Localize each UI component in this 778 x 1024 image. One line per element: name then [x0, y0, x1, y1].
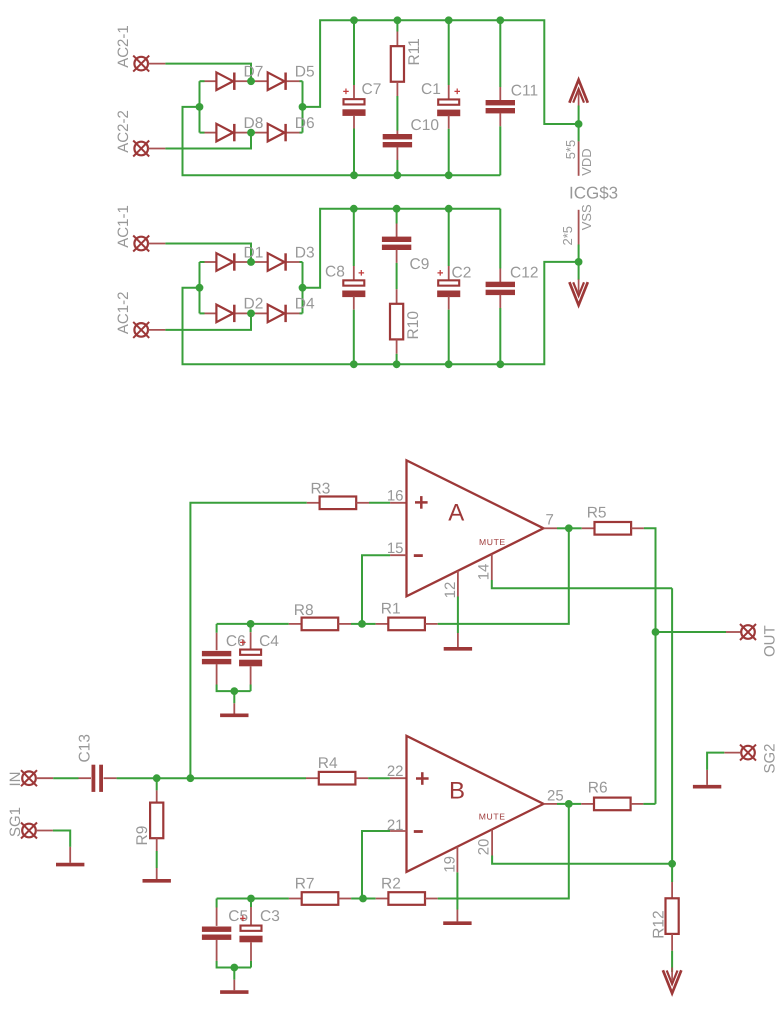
junction C9 top rail	[393, 205, 401, 213]
pin D7 cathode	[235, 80, 247, 82]
pin B out 25	[544, 803, 558, 805]
pin GND C6C4	[233, 703, 235, 713]
wire C12 top	[499, 209, 501, 269]
svg-text:20: 20	[476, 839, 493, 856]
wire VSS arrow stem	[578, 262, 580, 280]
resistor R6	[594, 798, 631, 811]
pin C12 top	[499, 269, 501, 283]
resistor R12	[666, 898, 679, 934]
wire A out to R5	[569, 527, 582, 529]
wire A feedback left	[217, 623, 251, 625]
pin R7 left	[289, 898, 302, 900]
wire R12 arrow stem	[671, 966, 673, 972]
wire R5 to OUT column	[644, 528, 656, 632]
pin C9 top	[396, 224, 398, 238]
capacitor C9	[382, 237, 411, 250]
svg-text:22: 22	[387, 763, 404, 780]
pin C10 top	[396, 131, 398, 135]
ground below pin 12	[444, 647, 472, 651]
pin D3 cathode	[287, 261, 300, 263]
plus C7	[343, 86, 349, 98]
label C9	[410, 256, 430, 273]
resistor R7	[302, 892, 339, 905]
wire bridge top row right	[300, 80, 303, 82]
junction VDD	[575, 120, 583, 128]
wire OUT junction to pad	[656, 631, 727, 633]
label SG1	[7, 807, 24, 837]
capacitor C8	[342, 280, 365, 297]
pin C10 bottom	[396, 147, 398, 160]
ground below C6 C4	[220, 713, 248, 717]
pin A 12	[457, 571, 459, 597]
pin AC2-1	[148, 63, 165, 65]
svg-text:OUT: OUT	[762, 625, 778, 657]
pin R11 top	[396, 32, 398, 47]
resistor R3	[320, 497, 357, 510]
wire bridge2 top row mid	[248, 261, 256, 263]
wire A feedback mid	[251, 623, 289, 625]
pin label 21	[387, 817, 404, 834]
pin C5 bottom	[216, 939, 218, 961]
label R1	[381, 601, 401, 618]
svg-text:R7: R7	[295, 876, 315, 893]
resistor R1	[388, 618, 425, 631]
pin C2 bottom	[448, 296, 450, 309]
capacitor C11	[486, 100, 515, 113]
resistor R4	[319, 772, 356, 785]
pin D6 cathode	[287, 132, 300, 134]
wire R2 segment	[363, 898, 376, 900]
svg-text:R4: R4	[318, 755, 338, 772]
wire C11 top	[499, 20, 501, 87]
label C11	[511, 83, 538, 100]
svg-text:C9: C9	[410, 256, 430, 273]
pin C2 top	[448, 266, 450, 280]
svg-text:C13: C13	[77, 734, 94, 762]
wire C6 top	[216, 624, 218, 633]
junction C4 top	[247, 620, 255, 628]
capacitor C5	[202, 927, 231, 940]
label VDD	[579, 148, 594, 175]
pin A out 7	[544, 527, 558, 529]
junction C3 top	[247, 895, 255, 903]
pin AC1-2	[148, 329, 165, 331]
wire bridge2 bottom row right	[300, 312, 303, 314]
junction bridge2 left	[196, 284, 204, 292]
pad SG2	[740, 745, 756, 761]
svg-text:SG1: SG1	[7, 807, 24, 837]
wire C4 bottom	[250, 685, 252, 692]
label R2	[381, 876, 401, 893]
wire bridge bottom row right	[300, 132, 303, 134]
wire bridge2 bottom row mid	[248, 312, 256, 314]
capacitor C6	[202, 651, 231, 664]
junction A output	[565, 524, 573, 532]
supply arrow VSS	[569, 279, 587, 305]
wire bridge2 right side	[302, 262, 304, 313]
capacitor C12	[486, 282, 515, 295]
pin B+ 22	[390, 777, 407, 779]
junction bridge bottom	[247, 129, 255, 137]
junction VSS	[575, 258, 583, 266]
wire node to R4	[190, 777, 306, 779]
wire group A to ground	[233, 691, 235, 703]
junction R12 top	[668, 860, 676, 868]
pin C6 top	[216, 633, 218, 650]
pin label 12	[442, 582, 459, 599]
wire R1 segment	[362, 623, 376, 625]
junction bridge2 right	[299, 284, 307, 292]
svg-text:SG2: SG2	[762, 743, 778, 773]
junction R11 top rail	[394, 16, 402, 24]
pin IN	[36, 777, 53, 779]
diode D6	[268, 115, 315, 141]
wire AC2-2 to bridge	[165, 133, 251, 149]
pin R4 left	[306, 777, 319, 779]
svg-text:+: +	[454, 86, 460, 98]
wire R11 top	[396, 20, 398, 31]
wire pin20 to right	[492, 856, 672, 864]
wire SG2 to ground	[707, 753, 724, 770]
label OUT	[762, 625, 778, 657]
pin R9 top	[156, 790, 158, 802]
pin D4 cathode	[287, 312, 300, 314]
wire pin19 down	[456, 872, 458, 909]
pin C8 top	[353, 266, 355, 280]
junction OUT	[652, 628, 660, 636]
svg-text:+: +	[343, 86, 349, 98]
pin label 22	[387, 763, 404, 780]
wire VDD arrow stem	[578, 106, 580, 142]
svg-text:R5: R5	[587, 504, 607, 521]
svg-text:MUTE: MUTE	[479, 812, 506, 822]
svg-text:R1: R1	[381, 601, 401, 618]
wire bridge2 bottom row	[200, 312, 205, 314]
junction R3 node	[187, 774, 195, 782]
wire R10 bottom	[396, 354, 398, 365]
pad OUT	[740, 624, 756, 640]
label R8	[294, 602, 314, 619]
ground below C5 C3	[220, 990, 248, 994]
pin D1 anode	[205, 261, 217, 263]
wire pin14 to right	[492, 580, 672, 588]
svg-text:+: +	[358, 267, 364, 279]
wire C11 bottom	[499, 126, 501, 175]
junction C1 top rail	[445, 16, 453, 24]
wire bridge right to top rail	[303, 20, 579, 124]
pin C6 bottom	[216, 664, 218, 685]
label R11	[406, 38, 423, 65]
wire C7 top	[353, 20, 355, 85]
pin label 25	[547, 787, 564, 804]
pin R12 bottom	[671, 934, 673, 951]
pin C1 bottom	[448, 115, 450, 128]
wire B feedback to output	[438, 804, 569, 899]
pin C11 top	[499, 87, 501, 101]
junction C11 top rail	[496, 16, 504, 24]
wire B- up	[362, 831, 390, 899]
pin A 14	[491, 554, 493, 580]
pin R4 right	[355, 777, 368, 779]
pin C4 bottom	[250, 666, 252, 684]
junction C1 bottom rail	[445, 171, 453, 179]
junction C6 C4 ground	[230, 687, 238, 695]
wire B out to R6	[569, 803, 581, 805]
pin SG1	[36, 830, 53, 832]
pad AC1-1	[133, 236, 149, 252]
resistor R5	[595, 522, 632, 535]
pad AC1-2	[133, 322, 149, 338]
pin D7 anode	[205, 80, 217, 82]
svg-text:C8: C8	[325, 264, 345, 281]
capacitor C3	[239, 926, 262, 943]
junction bridge right	[299, 103, 307, 111]
pin R12 top	[671, 882, 673, 899]
wire bridge top row	[200, 80, 205, 82]
label C7	[362, 81, 382, 98]
pin R11 bottom	[396, 82, 398, 96]
wire C1 top	[448, 20, 450, 85]
op-amp A	[407, 460, 544, 596]
pin C8 bottom	[353, 296, 355, 309]
pin label 20	[476, 839, 493, 856]
svg-text:R11: R11	[406, 38, 423, 65]
svg-text:IN: IN	[7, 772, 24, 787]
junction C2 top rail	[445, 205, 453, 213]
resistor R8	[302, 618, 339, 631]
label R6	[588, 780, 608, 797]
label 5*5	[563, 140, 578, 160]
junction C10 bottom rail	[394, 171, 402, 179]
svg-text:D6: D6	[295, 115, 315, 132]
svg-text:R3: R3	[311, 481, 331, 498]
label VSS	[579, 204, 594, 230]
svg-text:19: 19	[442, 856, 459, 873]
pin AC2-2	[148, 148, 165, 150]
wire C1 bottom	[448, 129, 450, 176]
diode D5	[268, 64, 315, 91]
wire pin14 column down	[671, 588, 673, 864]
pin D5 cathode	[287, 80, 300, 82]
wire C3 top	[250, 899, 252, 908]
plus C2	[437, 267, 443, 279]
resistor R9	[150, 803, 163, 839]
wire C7 bottom	[353, 129, 355, 176]
pin R3 right	[356, 502, 369, 504]
wire VSS pin to junction	[578, 245, 580, 262]
pin GND C5C3	[233, 980, 235, 991]
label AC1-2	[115, 292, 132, 335]
svg-text:VDD: VDD	[579, 148, 594, 175]
pin R8 left	[289, 623, 302, 625]
junction R10 bottom rail	[393, 360, 401, 368]
pin R3 left	[307, 502, 320, 504]
label R10	[405, 311, 422, 340]
pin C12 bottom	[499, 295, 501, 308]
label C13	[77, 734, 94, 762]
svg-text:25: 25	[547, 787, 564, 804]
wire C5 bottom	[217, 961, 251, 968]
svg-text:C3: C3	[260, 908, 280, 925]
svg-text:R8: R8	[294, 602, 314, 619]
label C6	[226, 633, 246, 650]
wire R4 to B+	[368, 777, 390, 779]
junction R7 R2	[359, 895, 367, 903]
pin D3 anode	[255, 261, 268, 263]
pin D1 cathode	[235, 261, 247, 263]
svg-text:ICG$3: ICG$3	[569, 184, 618, 203]
supply arrow VDD	[569, 80, 587, 106]
pin A+ 16	[390, 502, 406, 504]
wire C5 top	[216, 899, 218, 908]
svg-text:B: B	[449, 778, 465, 805]
resistor R10	[390, 304, 403, 340]
wire C6 bottom	[217, 685, 251, 692]
svg-text:D4: D4	[295, 296, 315, 313]
svg-text:16: 16	[387, 487, 404, 504]
wire C10 bottom	[396, 160, 398, 175]
pin R5 left	[582, 527, 595, 529]
label C5	[228, 908, 248, 925]
pin R6 left	[581, 803, 594, 805]
svg-text:D5: D5	[295, 64, 315, 81]
wire R8 to junction	[351, 623, 362, 625]
svg-text:R6: R6	[588, 780, 608, 797]
svg-text:C4: C4	[259, 633, 279, 650]
pin D6 anode	[255, 132, 268, 134]
pin label 7	[546, 512, 554, 529]
pin D2 anode	[205, 312, 217, 314]
label R7	[295, 876, 315, 893]
wire SG1 to ground	[53, 831, 70, 847]
label C2	[452, 264, 472, 281]
wire C4 top	[250, 624, 252, 632]
pin label 16	[387, 487, 404, 504]
svg-text:C1: C1	[421, 81, 441, 98]
pad AC2-2	[133, 141, 149, 157]
wire node segment	[157, 777, 191, 779]
label C3	[260, 908, 280, 925]
pin C11 bottom	[499, 113, 501, 126]
plus C4	[240, 637, 246, 649]
diode D2	[216, 296, 263, 323]
pin VSS ICG$3	[578, 210, 580, 245]
pin GND A12	[457, 633, 459, 647]
svg-text:AC2-1: AC2-1	[115, 25, 132, 68]
wire A feedback to output	[438, 528, 569, 624]
svg-text:R12: R12	[651, 910, 668, 938]
junction C5 C3 ground	[230, 964, 238, 972]
pin B 19	[456, 847, 458, 873]
wire AC1-2 to bridge	[165, 313, 251, 330]
svg-text:R9: R9	[134, 826, 151, 846]
pin VDD ICG$3	[578, 141, 580, 175]
ground below SG2	[693, 785, 721, 789]
junction C7 top rail	[350, 16, 358, 24]
pin A- 15	[390, 554, 406, 556]
wire bridge top row mid	[248, 80, 256, 82]
diode D3	[268, 244, 315, 271]
wire R11 to C10	[396, 96, 398, 131]
wire R9 to ground	[156, 851, 158, 868]
wire C2 bottom	[448, 310, 450, 365]
label C12	[510, 264, 538, 281]
resistor R11	[391, 46, 404, 82]
wire B feedback left	[217, 898, 251, 900]
label SG2	[762, 743, 778, 773]
label ICG$3	[569, 184, 618, 203]
pin R2 right	[425, 898, 438, 900]
diode D1	[216, 244, 263, 271]
capacitor C4	[239, 650, 262, 667]
wire IN to C13	[53, 777, 78, 779]
pin C4 top	[250, 632, 252, 649]
wire node to R3 line	[190, 503, 306, 778]
svg-text:A: A	[448, 500, 464, 527]
pin C5 top	[216, 908, 218, 926]
svg-text:MUTE: MUTE	[479, 537, 506, 547]
pin D8 cathode	[235, 132, 247, 134]
wire R7 to junction	[351, 898, 363, 900]
junction C2 bottom rail	[445, 360, 453, 368]
pad SG1	[21, 823, 37, 839]
wire C13 to node	[117, 777, 157, 779]
wire A out to junction	[557, 527, 569, 529]
diode D4	[268, 296, 315, 323]
label C10	[411, 117, 440, 134]
svg-text:AC2-2: AC2-2	[115, 110, 132, 153]
pin R8 right	[338, 623, 351, 625]
label C8	[325, 264, 345, 281]
wire AC2-1 to bridge	[165, 64, 251, 82]
pin GND B19	[456, 910, 458, 922]
svg-text:D3: D3	[295, 244, 315, 261]
pin R9 bottom	[156, 838, 158, 851]
svg-text:C7: C7	[362, 81, 382, 98]
plus C8	[358, 267, 364, 279]
pin R10 top	[396, 289, 398, 304]
svg-text:14: 14	[476, 564, 493, 581]
pin label 15	[387, 540, 404, 557]
pin R2 left	[376, 898, 389, 900]
pin R5 right	[631, 527, 644, 529]
pin C9 bottom	[396, 250, 398, 263]
wire C3 bottom	[250, 961, 252, 968]
label C1	[421, 81, 441, 98]
wire B out to junction	[557, 803, 569, 805]
pin B- 21	[390, 830, 406, 832]
wire A- up	[362, 555, 390, 624]
junction R8 R1	[358, 620, 366, 628]
svg-text:D8: D8	[244, 115, 264, 132]
svg-text:C10: C10	[411, 117, 440, 134]
svg-text:D7: D7	[244, 64, 264, 81]
label C4	[259, 633, 279, 650]
label R12	[651, 910, 668, 938]
pin label 14	[476, 564, 493, 581]
pin D8 anode	[205, 132, 217, 134]
wire AC1-1 to bridge	[165, 244, 251, 263]
pin C3 bottom	[250, 942, 252, 961]
wire bridge2 left side	[199, 262, 201, 313]
svg-text:VSS: VSS	[579, 204, 594, 230]
junction bridge left	[196, 103, 204, 111]
pad IN	[21, 770, 37, 786]
svg-text:12: 12	[442, 582, 459, 599]
supply arrow VSS R12	[663, 968, 681, 994]
junction C12 bottom rail	[496, 360, 504, 368]
svg-text:7: 7	[546, 512, 554, 529]
